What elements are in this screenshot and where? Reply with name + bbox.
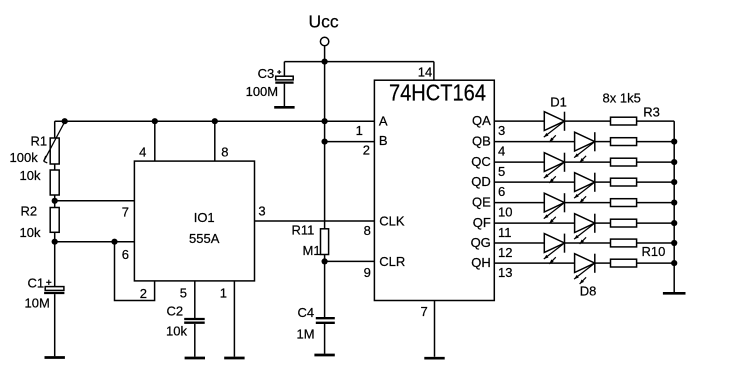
wire pin1 stub bbox=[233, 281, 235, 357]
svg-text:R3: R3 bbox=[643, 105, 660, 120]
wire resistor to bus row 3 bbox=[637, 161, 675, 163]
wire LED to resistor row 8 bbox=[595, 262, 611, 264]
svg-text:C2: C2 bbox=[167, 304, 184, 319]
svg-text:4: 4 bbox=[139, 145, 146, 160]
svg-text:74HCT164: 74HCT164 bbox=[389, 80, 486, 106]
junction bus row 7 bbox=[671, 240, 677, 246]
svg-text:8: 8 bbox=[364, 223, 371, 238]
svg-text:M1: M1 bbox=[303, 243, 321, 258]
svg-text:R10: R10 bbox=[642, 244, 666, 259]
svg-text:2: 2 bbox=[363, 143, 370, 158]
wire R1 top bbox=[54, 121, 56, 138]
resistor 1k5 row 6 bbox=[611, 219, 637, 227]
svg-text:QA: QA bbox=[472, 113, 491, 128]
wire junction-R2 bbox=[54, 201, 56, 208]
svg-text:555A: 555A bbox=[189, 231, 220, 246]
junction CLR bbox=[322, 258, 328, 264]
wire LED to resistor row 5 bbox=[565, 202, 611, 204]
wire pin6 bbox=[55, 241, 135, 243]
resistor 1k5 row 2 bbox=[611, 138, 637, 146]
junction pin6 loop bbox=[111, 239, 117, 245]
wire LED to resistor row 7 bbox=[565, 242, 611, 244]
svg-text:QD: QD bbox=[471, 174, 491, 189]
svg-text:3: 3 bbox=[498, 123, 505, 138]
wire pin7 bbox=[55, 200, 135, 202]
junction pin6 left bbox=[52, 239, 58, 245]
capacitor C3 bbox=[283, 62, 285, 77]
ground C4 bbox=[314, 354, 334, 357]
wire Ucc vertical bbox=[324, 46, 326, 229]
svg-text:10k: 10k bbox=[20, 225, 41, 240]
ground C1 bbox=[45, 356, 65, 359]
wire QB to LED bbox=[494, 141, 574, 143]
svg-text:13: 13 bbox=[498, 265, 512, 280]
junction pin7 bbox=[52, 198, 58, 204]
wire LED to resistor row 4 bbox=[595, 181, 611, 183]
svg-text:CLK: CLK bbox=[379, 214, 405, 229]
svg-text:QF: QF bbox=[473, 215, 491, 230]
wire resistor to bus row 7 bbox=[637, 242, 675, 244]
svg-text:3: 3 bbox=[258, 203, 265, 218]
svg-text:14: 14 bbox=[418, 65, 432, 80]
svg-text:R1: R1 bbox=[31, 134, 48, 149]
svg-text:1: 1 bbox=[220, 285, 227, 300]
wire 10k-junction bbox=[54, 195, 56, 201]
wire main rail bbox=[55, 120, 375, 122]
junction bus row 3 bbox=[671, 159, 677, 165]
wire resistor to bus row 1 bbox=[637, 120, 675, 122]
resistor R2 bbox=[50, 208, 59, 233]
resistor 1k5 row 7 bbox=[611, 239, 637, 247]
wire top rail bbox=[284, 61, 434, 63]
wire LED to resistor row 1 bbox=[565, 120, 611, 122]
svg-text:2: 2 bbox=[140, 286, 147, 301]
wire QH to LED bbox=[494, 262, 574, 264]
svg-text:D8: D8 bbox=[580, 284, 597, 299]
wire pin14 stub bbox=[433, 62, 435, 81]
LED D7 bbox=[544, 234, 564, 253]
svg-text:C3: C3 bbox=[258, 66, 275, 81]
svg-text:C4: C4 bbox=[298, 305, 315, 320]
svg-text:QE: QE bbox=[472, 195, 491, 210]
wire B line bbox=[325, 141, 375, 143]
junction rail-R1 bbox=[62, 118, 68, 124]
svg-text:9: 9 bbox=[364, 265, 371, 280]
svg-text:A: A bbox=[379, 113, 388, 128]
wire QF to LED bbox=[494, 222, 574, 224]
svg-text:12: 12 bbox=[498, 245, 512, 260]
LED D3 bbox=[544, 153, 564, 172]
LED D1 bbox=[544, 112, 564, 131]
svg-text:8x 1k5: 8x 1k5 bbox=[603, 90, 641, 105]
junction bus row 8 bbox=[671, 260, 677, 266]
junction bus row 5 bbox=[671, 200, 677, 206]
wire QA to LED bbox=[494, 120, 544, 122]
capacitor C1 bbox=[45, 287, 64, 291]
svg-text:QC: QC bbox=[471, 154, 491, 169]
svg-text:100M: 100M bbox=[246, 84, 279, 99]
LED D6 bbox=[575, 214, 595, 233]
svg-text:7: 7 bbox=[420, 304, 427, 319]
svg-text:5: 5 bbox=[180, 285, 187, 300]
svg-text:B: B bbox=[379, 133, 388, 148]
svg-text:1M: 1M bbox=[297, 327, 315, 342]
ground pin1 bbox=[224, 357, 244, 360]
junction B bbox=[322, 139, 328, 145]
wire pin2 loop bbox=[115, 242, 155, 301]
wire QG to LED bbox=[494, 242, 544, 244]
junction bus row 4 bbox=[671, 179, 677, 185]
wire LED to resistor row 2 bbox=[595, 141, 611, 143]
wire pin5 stub bbox=[194, 281, 196, 318]
wire QE to LED bbox=[494, 202, 544, 204]
svg-text:11: 11 bbox=[498, 225, 512, 240]
wire LED to resistor row 6 bbox=[595, 222, 611, 224]
svg-text:CLR: CLR bbox=[379, 254, 405, 269]
svg-text:6: 6 bbox=[122, 247, 129, 262]
svg-text:8: 8 bbox=[221, 145, 228, 160]
svg-text:R2: R2 bbox=[21, 204, 38, 219]
ground right bus bbox=[663, 292, 686, 295]
wire QD to LED bbox=[494, 181, 574, 183]
capacitor C4 bbox=[324, 261, 326, 317]
svg-text:7: 7 bbox=[122, 204, 129, 219]
svg-text:1: 1 bbox=[356, 123, 363, 138]
ground C3 bbox=[274, 106, 294, 109]
svg-text:6: 6 bbox=[498, 184, 505, 199]
junction bus row 6 bbox=[671, 220, 677, 226]
junction top rail bbox=[322, 59, 328, 65]
svg-text:R11: R11 bbox=[292, 223, 315, 238]
svg-text:QH: QH bbox=[471, 255, 491, 270]
ground U1 pin7 bbox=[424, 357, 444, 360]
LED D8 bbox=[575, 254, 595, 273]
resistor 1k5 row 4 bbox=[611, 178, 637, 186]
svg-text:D1: D1 bbox=[550, 95, 567, 110]
svg-text:10: 10 bbox=[498, 205, 512, 220]
LED D2 bbox=[575, 132, 595, 151]
junction rail-pin4 bbox=[152, 118, 158, 124]
wire resistor to bus row 2 bbox=[637, 141, 675, 143]
svg-text:Ucc: Ucc bbox=[309, 12, 339, 32]
wire resistor to bus row 4 bbox=[637, 181, 675, 183]
ground C2 bbox=[185, 357, 205, 360]
junction rail-pin8 bbox=[212, 118, 218, 124]
R1 wiper arrow bbox=[44, 121, 65, 161]
wire LED to resistor row 3 bbox=[565, 161, 611, 163]
svg-text:4: 4 bbox=[498, 144, 505, 159]
IC U1 74HCT164 box bbox=[374, 80, 494, 300]
resistor R11 bbox=[321, 229, 329, 255]
label C3 plus bbox=[277, 71, 281, 73]
capacitor C2 bbox=[184, 318, 205, 320]
label C1 plus bbox=[46, 281, 51, 283]
op-amp IO1 box bbox=[134, 161, 254, 281]
svg-text:10M: 10M bbox=[25, 296, 50, 311]
resistor R1 bbox=[50, 138, 59, 164]
svg-text:IO1: IO1 bbox=[194, 210, 215, 225]
wire pin4 stub bbox=[154, 121, 156, 161]
node Ucc terminal bbox=[320, 37, 328, 45]
junction bus row 2 bbox=[671, 139, 677, 145]
resistor 1k5 row 8 bbox=[611, 259, 637, 267]
svg-text:C1: C1 bbox=[28, 276, 45, 291]
wire pin7 stub of U1 bbox=[434, 301, 436, 357]
svg-text:QB: QB bbox=[472, 134, 491, 149]
wire R11 bottom bbox=[324, 255, 326, 262]
wire resistor to bus row 5 bbox=[637, 202, 675, 204]
wire C1 top bbox=[54, 242, 56, 287]
svg-text:5: 5 bbox=[498, 164, 505, 179]
junction rail-Ucc bbox=[322, 118, 328, 124]
svg-text:10k: 10k bbox=[166, 324, 187, 339]
wire R2-junction bbox=[54, 232, 56, 241]
resistor 1k5 row 1 bbox=[611, 117, 637, 125]
LED D5 bbox=[544, 193, 564, 212]
resistor 1k5 row 3 bbox=[611, 158, 637, 166]
svg-text:10k: 10k bbox=[20, 168, 41, 183]
wire pin3 bbox=[255, 220, 375, 222]
LED D4 bbox=[575, 173, 595, 192]
wire resistor to bus row 8 bbox=[637, 262, 675, 264]
wire right bus bbox=[673, 121, 675, 292]
svg-text:100k: 100k bbox=[10, 150, 39, 165]
wire R1-10k bbox=[54, 164, 56, 170]
wire CLR bbox=[325, 260, 375, 262]
resistor 10k upper bbox=[50, 170, 59, 195]
wire resistor to bus row 6 bbox=[637, 222, 675, 224]
resistor 1k5 row 5 bbox=[611, 199, 637, 207]
wire QC to LED bbox=[494, 161, 544, 163]
svg-text:QG: QG bbox=[471, 235, 491, 250]
wire pin8 stub bbox=[214, 121, 216, 161]
